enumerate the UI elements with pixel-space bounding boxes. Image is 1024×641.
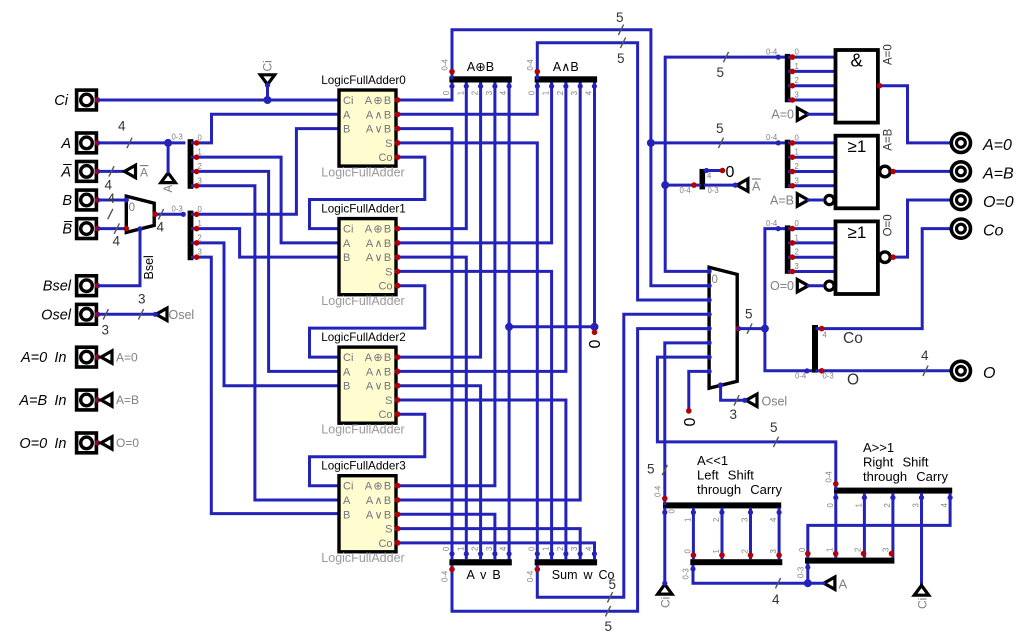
input port Aeq0In (77, 347, 101, 367)
svg-text:A=0: A=0 (771, 108, 794, 122)
label merger A or B pin 0 (442, 546, 451, 551)
svg-text:LogicFullAdder: LogicFullAdder (321, 165, 404, 179)
label B splitter out 1 (198, 219, 202, 228)
svg-text:A⊕B: A⊕B (365, 95, 393, 107)
bus slash AxorB right (718, 138, 723, 148)
svg-text:0-4: 0-4 (680, 186, 692, 195)
pin dot B mux input 1 (124, 226, 130, 232)
label O net (847, 372, 859, 389)
splitter left-shift A bar (690, 559, 782, 565)
label left-shift merger pin 4 (769, 517, 778, 522)
bus slash O wire (923, 366, 928, 376)
svg-text:1: 1 (456, 91, 465, 95)
LogicFullAdder2 pin labels (343, 352, 393, 421)
wire splitter Oeq0 NOR gate bit 0 to gate (790, 227, 836, 230)
svg-text:A=0: A=0 (982, 137, 1012, 154)
junction const0 left (505, 323, 513, 331)
svg-text:0: 0 (795, 48, 800, 57)
label right-shift merger pin 4 (940, 503, 949, 508)
pin dot merger A and B output 0-4 (535, 69, 541, 75)
pin dot right-shift merger in 0 (833, 495, 838, 500)
svg-text:Co: Co (983, 223, 1004, 240)
wire B port to mux input 0 (98, 199, 126, 202)
label B splitter out 3 (198, 248, 202, 257)
pin dot right-shift merger in 3 (919, 495, 924, 500)
svg-text:through Carry: through Carry (863, 469, 948, 484)
svg-text:S: S (385, 138, 392, 150)
svg-text:5: 5 (616, 10, 624, 25)
svg-text:Co: Co (378, 409, 392, 421)
tunnel Ci (left-shift) (658, 584, 672, 594)
svg-text:0-4: 0-4 (795, 371, 807, 380)
output port O=0 (951, 190, 970, 209)
svg-text:4: 4 (113, 234, 121, 249)
label right-shift merger pin 3 (912, 503, 921, 507)
pin dot left-shift merger in 2 (719, 510, 724, 515)
bus slash result (747, 323, 752, 333)
svg-text:A: A (163, 185, 175, 193)
svg-text:Bsel: Bsel (43, 279, 72, 295)
label B splitter out 2 (198, 233, 202, 242)
pin dot output AeqB NOR gate (890, 169, 896, 175)
label 3 Osel select (730, 407, 738, 422)
pin dot splitter AeqB NOR gate out 2 (790, 169, 796, 175)
svg-text:A v B: A v B (467, 568, 501, 582)
svg-text:2: 2 (795, 248, 799, 257)
svg-text:1: 1 (826, 548, 835, 552)
pin dot merger A or B in 2 (478, 551, 483, 556)
pin dot Ci tunnel (265, 83, 270, 88)
wire LFA2 AxorB to merger pin2 (396, 84, 481, 357)
pin dot merger A xor B in 2 (478, 84, 483, 89)
svg-text:2: 2 (712, 518, 721, 522)
svg-text:B: B (343, 509, 350, 521)
wire splitter Aeq0 AND gate bit 0 to gate (790, 56, 836, 59)
bus slash Osel select (734, 395, 739, 405)
wire O=0 In port to tunnel (98, 441, 101, 444)
svg-text:A=B: A=B (770, 194, 794, 208)
svg-text:4: 4 (584, 546, 593, 551)
pin dot splitter Oeq0 NOR gate out 3 (790, 269, 796, 275)
svg-text:A∧B: A∧B (366, 366, 393, 378)
svg-text:5: 5 (716, 121, 724, 136)
wire B bit3 to LogicFullAdder3 B (193, 257, 340, 513)
svg-text:0-4: 0-4 (824, 471, 833, 483)
wire tunnel A=B to bubble (808, 199, 822, 202)
label 0-4 merger Sum w Co (526, 570, 535, 582)
pin dot merger A or B output 0-4 (449, 567, 455, 573)
pin dot result mux input 2 (707, 297, 712, 302)
pin dot right-shift merger in 2 (890, 495, 895, 500)
label merger A or B pin 3 (485, 547, 494, 551)
label splitter Oeq0 NOR gate out 1 (795, 233, 799, 242)
svg-text:5: 5 (717, 65, 725, 80)
merger A or B bar (449, 559, 511, 565)
wire splitter AeqB NOR gate bit 0 to gate (790, 141, 836, 144)
input port Aeq0In label (20, 350, 67, 366)
inverter bubble input Oeq0 NOR gate (825, 281, 834, 290)
svg-text:2: 2 (471, 547, 480, 551)
label right-shift splitter pin 2 (854, 548, 863, 552)
LogicFullAdder2 block U3 (321, 331, 405, 436)
input port A (77, 133, 101, 153)
LogicFullAdder1 pin labels (343, 224, 393, 293)
label A splitter out 1 (198, 148, 202, 157)
wire LFA3 AorB to or-merger pin3 (396, 514, 495, 558)
wire A=0 In port to tunnel (98, 356, 101, 359)
svg-text:B: B (343, 252, 350, 264)
pin dot splitter input Aeq0 AND gate (776, 55, 781, 60)
svg-text:A: A (343, 366, 351, 378)
label merger Sum w Co pin 4 (584, 546, 593, 551)
svg-text:A: A (140, 166, 148, 180)
pin dot B mux output (152, 212, 158, 218)
inverter bubble output Oeq0 NOR gate (880, 252, 891, 263)
wire A bit0 to LogicFullAdder0 A (193, 114, 340, 143)
overline for Abar tunnel label (140, 165, 149, 167)
svg-text:A: A (343, 495, 351, 507)
svg-text:A∨B: A∨B (366, 252, 393, 264)
label merger A xor B pin 2 (471, 91, 480, 95)
svg-text:A=0 In: A=0 In (20, 350, 67, 366)
wire result down to CoO splitter (765, 329, 813, 371)
label Abar tunnel middle (752, 179, 761, 193)
svg-text:0-4: 0-4 (766, 219, 778, 228)
label B splitter out 0 (198, 205, 203, 214)
pin dot A splitter out 2 (194, 169, 200, 175)
label splitter Oeq0 NOR gate out 2 (795, 248, 799, 257)
wire AeqB gate to port (893, 170, 949, 173)
label 0-4 CoO splitter (795, 371, 807, 380)
svg-text:through Carry: through Carry (697, 482, 782, 497)
svg-text:A∨B: A∨B (366, 124, 393, 136)
label Ci tunnel (261, 60, 275, 71)
svg-text:Right Shift: Right Shift (863, 455, 929, 470)
svg-text:Sum w Co: Sum w Co (552, 568, 615, 582)
bus AxorB merger to mux input1 (452, 30, 709, 286)
wire LFA0 S to sum-merger pin0 (396, 143, 537, 558)
label A=0 tunnel (116, 350, 138, 364)
wire Bbar port to mux input 1 (98, 227, 126, 230)
svg-text:4: 4 (118, 119, 126, 134)
label 0-4 Abar merger (680, 186, 692, 195)
tunnel Osel (near port) (156, 308, 167, 320)
input port Osel label (41, 307, 72, 323)
wire Co to output port (817, 229, 949, 329)
label 0-4 merger A or B (441, 570, 450, 582)
bus slash Sum (607, 592, 612, 602)
svg-text:LogicFullAdder0: LogicFullAdder0 (321, 74, 406, 87)
label A splitter out 0 (198, 133, 203, 142)
wire tunnel A=0 to gate (808, 113, 835, 116)
label net A=0 rotated (883, 44, 895, 65)
splitter Co/O bar (812, 325, 818, 373)
wire LFA2 AandB to merger pin2 (396, 84, 566, 371)
pin dot merger Sum w Co in 1 (549, 551, 554, 556)
pin dot splitter Oeq0 NOR gate out 0 (790, 226, 796, 232)
bus slash B mux output (158, 209, 163, 219)
label 0-3 Abar merger (708, 186, 719, 195)
svg-text:Osel: Osel (41, 307, 72, 323)
svg-text:B: B (343, 124, 350, 136)
tunnel A=0 (gate input) (797, 108, 808, 120)
pin dot A splitter out 3 (194, 183, 200, 189)
svg-text:0: 0 (129, 202, 135, 214)
svg-text:LogicFullAdder2: LogicFullAdder2 (321, 331, 405, 344)
label merger A and B pin 2 (556, 91, 565, 95)
svg-text:Bsel: Bsel (142, 255, 156, 279)
label constant 0 (mux in7) (682, 418, 699, 427)
input port Bsel (77, 276, 101, 296)
svg-text:5: 5 (745, 307, 753, 322)
svg-text:Co: Co (378, 152, 392, 164)
label Osel tunnel mux (762, 394, 788, 408)
svg-text:4: 4 (499, 90, 508, 95)
pin dot Osel tunnel (153, 312, 158, 317)
wire tunnel O=0 to bubble (808, 284, 822, 287)
svg-text:Co: Co (378, 538, 392, 550)
label 0-4 splitter Oeq0 NOR gate (766, 219, 778, 228)
input port Bnot (77, 219, 101, 239)
pin dot B splitter out 3 (194, 254, 200, 260)
label 4 Bbar bus width (113, 234, 121, 249)
wire Ci tunnel to left-shift pin0 (663, 509, 666, 584)
pin dot merger Sum w Co in 2 (563, 551, 568, 556)
svg-text:A=B: A=B (982, 165, 1014, 182)
pin dot right-shift merger in 1 (862, 495, 867, 500)
svg-text:Osel: Osel (169, 308, 195, 322)
splitter A 0-3 (188, 139, 194, 189)
label A splitter out 2 (198, 162, 202, 171)
label 0-3 left-shift splitter (682, 568, 691, 579)
pin dot left-shift splitter out 0 (691, 552, 697, 558)
svg-text:3: 3 (102, 323, 110, 338)
pin dot merger A or B in 1 (464, 551, 469, 556)
wire left-shift bit 2 (749, 509, 752, 558)
wire Bsel port to B mux select (98, 230, 140, 286)
pin dot merger A and B in 1 (549, 84, 554, 89)
bus slash AorB (605, 606, 610, 616)
label A=B tunnel (116, 393, 139, 407)
svg-text:0: 0 (798, 547, 807, 552)
svg-text:3: 3 (138, 292, 146, 307)
label 5 AorB bus (605, 619, 613, 634)
wire right-shift bit 1 (863, 495, 866, 557)
wire Ci junction to Ci tunnel (266, 86, 269, 100)
pin dot splitter Oeq0 NOR gate out 1 (790, 240, 796, 246)
label right-shift merger pin 2 (883, 503, 892, 507)
svg-text:2: 2 (795, 76, 799, 85)
svg-text:0-3: 0-3 (172, 133, 183, 142)
wire B bit0 to LogicFullAdder0 B (193, 129, 340, 215)
label A tunnel (163, 185, 175, 193)
svg-text:O: O (983, 365, 995, 382)
multiplexer result (Osel) U5 (709, 267, 737, 388)
label merger Sum w Co pin 1 (542, 547, 551, 551)
bus slash Abar wire (109, 166, 114, 176)
LogicFullAdder3 output pin dots (395, 483, 401, 546)
label Osel tunnel (169, 308, 195, 322)
tunnel Osel (mux) (746, 394, 757, 406)
output port A=0 label (982, 137, 1012, 154)
pin dot merger Sum w Co in 4 (592, 551, 597, 556)
svg-text:0-4: 0-4 (441, 59, 450, 71)
pin dot B mux input 0 (124, 197, 129, 202)
svg-text:A: A (752, 179, 761, 193)
svg-text:4: 4 (157, 220, 165, 235)
label left-shift merger pin 2 (712, 518, 721, 522)
svg-text:0: 0 (527, 90, 536, 95)
pin dot left-shift merger in 1 (691, 510, 696, 515)
junction A bus bottom (804, 579, 812, 587)
pin dot merger A xor B in 0 (449, 84, 454, 89)
bus left-shift result to mux input5 (665, 343, 709, 504)
svg-text:B̅: B̅ (62, 222, 73, 238)
label right-shift merger pin 0 (826, 503, 835, 508)
wire right-shift bit 2 (891, 495, 894, 557)
junction AxorB to AeqB splitter (647, 139, 655, 147)
svg-text:≥1: ≥1 (848, 223, 867, 242)
svg-text:&: & (851, 50, 864, 71)
pin dot output Oeq0 NOR gate (890, 254, 896, 260)
wire LFA3 Co to sum-merger pin4 (396, 543, 595, 558)
label net A=B rotated (883, 128, 895, 150)
svg-text:1: 1 (456, 547, 465, 551)
label merger A or B pin 4 (499, 546, 508, 551)
output port A=B (951, 162, 970, 181)
LogicFullAdder0 output pin dots (395, 97, 401, 160)
svg-text:0: 0 (667, 509, 676, 514)
svg-text:0: 0 (795, 133, 800, 142)
svg-text:LogicFullAdder: LogicFullAdder (321, 422, 404, 436)
tunnel A (bottom) (824, 577, 835, 589)
pin dot right-shift splitter out 1 (833, 551, 839, 557)
wire LFA0 AxorB to merger pin0 (396, 84, 452, 100)
svg-text:A⊕B: A⊕B (467, 60, 494, 74)
label Ci tunnel left-shift (659, 597, 673, 608)
pin dot merger A and B in 4 (592, 84, 597, 89)
svg-text:4: 4 (769, 517, 778, 522)
wire const0 to Abar merger pin4 (705, 169, 722, 172)
label 0-3 A splitter input (172, 133, 183, 142)
bus slash Osel wire 1 (103, 309, 108, 319)
label left-shift merger pin 3 (741, 518, 750, 522)
gate rect Oeq0 NOR gate (836, 221, 878, 294)
svg-text:4: 4 (499, 546, 508, 551)
svg-text:0: 0 (726, 164, 735, 181)
svg-text:0: 0 (442, 90, 451, 95)
pin dot splitter Aeq0 AND gate out 3 (790, 97, 796, 103)
svg-text:A=B In: A=B In (18, 393, 66, 409)
bus Abar up to Aeq0 splitter (665, 57, 785, 185)
svg-text:1: 1 (854, 503, 863, 507)
label 0-4 merger A xor B (441, 59, 450, 71)
wire Aeq0 gate to port (879, 86, 949, 143)
bus AandB merger to mux input2 (537, 43, 709, 300)
pin dot splitter AeqB NOR gate out 1 (790, 154, 796, 160)
input port Oeq0In label (19, 436, 66, 452)
wire A bit1 to LogicFullAdder1 A (193, 157, 340, 243)
output port A=0 (951, 133, 970, 152)
label 5 Abar gate bus (717, 65, 725, 80)
wire splitter Oeq0 NOR gate bit 2 to gate (790, 256, 836, 259)
svg-text:0-4: 0-4 (441, 570, 450, 582)
bus slash AandB top (620, 38, 625, 48)
pin dot result mux input 1 (707, 283, 712, 288)
svg-text:3: 3 (769, 549, 778, 553)
wire splitter Oeq0 NOR gate bit 1 to gate (790, 241, 836, 244)
label Co net (843, 330, 863, 347)
input port Osel (77, 304, 101, 324)
svg-text:1: 1 (795, 62, 799, 71)
label merger Sum w Co pin 3 (570, 547, 579, 551)
pin dot result mux select (718, 382, 723, 387)
svg-text:0: 0 (795, 219, 800, 228)
svg-text:A⊕B: A⊕B (365, 224, 393, 236)
wire splitter Aeq0 AND gate bit 1 to gate (790, 70, 836, 73)
input port A label (60, 136, 71, 152)
pin dot merger A or B in 0 (449, 551, 454, 556)
label 0-3 B splitter input (172, 205, 183, 214)
svg-text:3: 3 (795, 91, 799, 100)
label left-shift splitter pin 1 (712, 549, 721, 553)
svg-text:0-4: 0-4 (766, 133, 778, 142)
svg-text:0: 0 (587, 340, 604, 349)
svg-text:A∨B: A∨B (366, 381, 393, 393)
label merger A xor B pin 0 (442, 90, 451, 95)
svg-text:2: 2 (883, 503, 892, 507)
wire const0 down to AvB merger pin4 (508, 327, 511, 558)
svg-text:Ci: Ci (343, 224, 353, 236)
svg-text:0-3: 0-3 (172, 205, 183, 214)
input port Oeq0In (77, 433, 101, 453)
label merger A and B pin 0 (527, 90, 536, 95)
svg-text:0-4: 0-4 (653, 485, 662, 497)
input port Anot (77, 162, 101, 182)
pin dot left-shift splitter out 1 (719, 552, 725, 558)
pin dot B splitter out 1 (194, 226, 200, 232)
label A tunnel bottom (839, 576, 848, 591)
LogicFullAdder0 block U1 (321, 74, 406, 179)
label 3 Osel width upper (138, 292, 146, 307)
pin dot merger A xor B output 0-4 (449, 69, 455, 75)
bus right-shift result to mux input6 (657, 357, 835, 488)
label 0-4 splitter AeqB NOR gate (766, 133, 778, 142)
svg-text:2: 2 (854, 548, 863, 552)
svg-text:3: 3 (795, 262, 799, 271)
merger left-shift bar (663, 502, 781, 508)
pin dot splitter Aeq0 AND gate out 2 (790, 83, 796, 89)
svg-text:Co: Co (378, 281, 392, 293)
wire splitter Aeq0 AND gate bit 3 to gate (790, 99, 836, 102)
wire const0 to AandB merger pin4 (593, 84, 596, 327)
pin dot splitter Aeq0 AND gate out 1 (790, 69, 796, 75)
svg-text:0-3: 0-3 (823, 371, 834, 380)
svg-text:3: 3 (485, 547, 494, 551)
splitter for Aeq0 AND gate (785, 54, 791, 102)
svg-text:LogicFullAdder: LogicFullAdder (321, 294, 404, 308)
pin dot right-shift splitter out 0 (805, 551, 811, 557)
merger right-shift bar (834, 488, 952, 494)
tunnel A=0 (near port) (101, 351, 112, 363)
svg-text:3: 3 (741, 518, 750, 522)
label 3 Osel width lower (102, 323, 110, 338)
label 4 A bottom bus (772, 592, 780, 607)
label left-shift merger pin 0 (667, 509, 676, 514)
wire result up to Oeq0 splitter (765, 229, 786, 329)
pin dot merger A and B in 0 (535, 84, 540, 89)
merger Sum w Co title (552, 568, 615, 582)
